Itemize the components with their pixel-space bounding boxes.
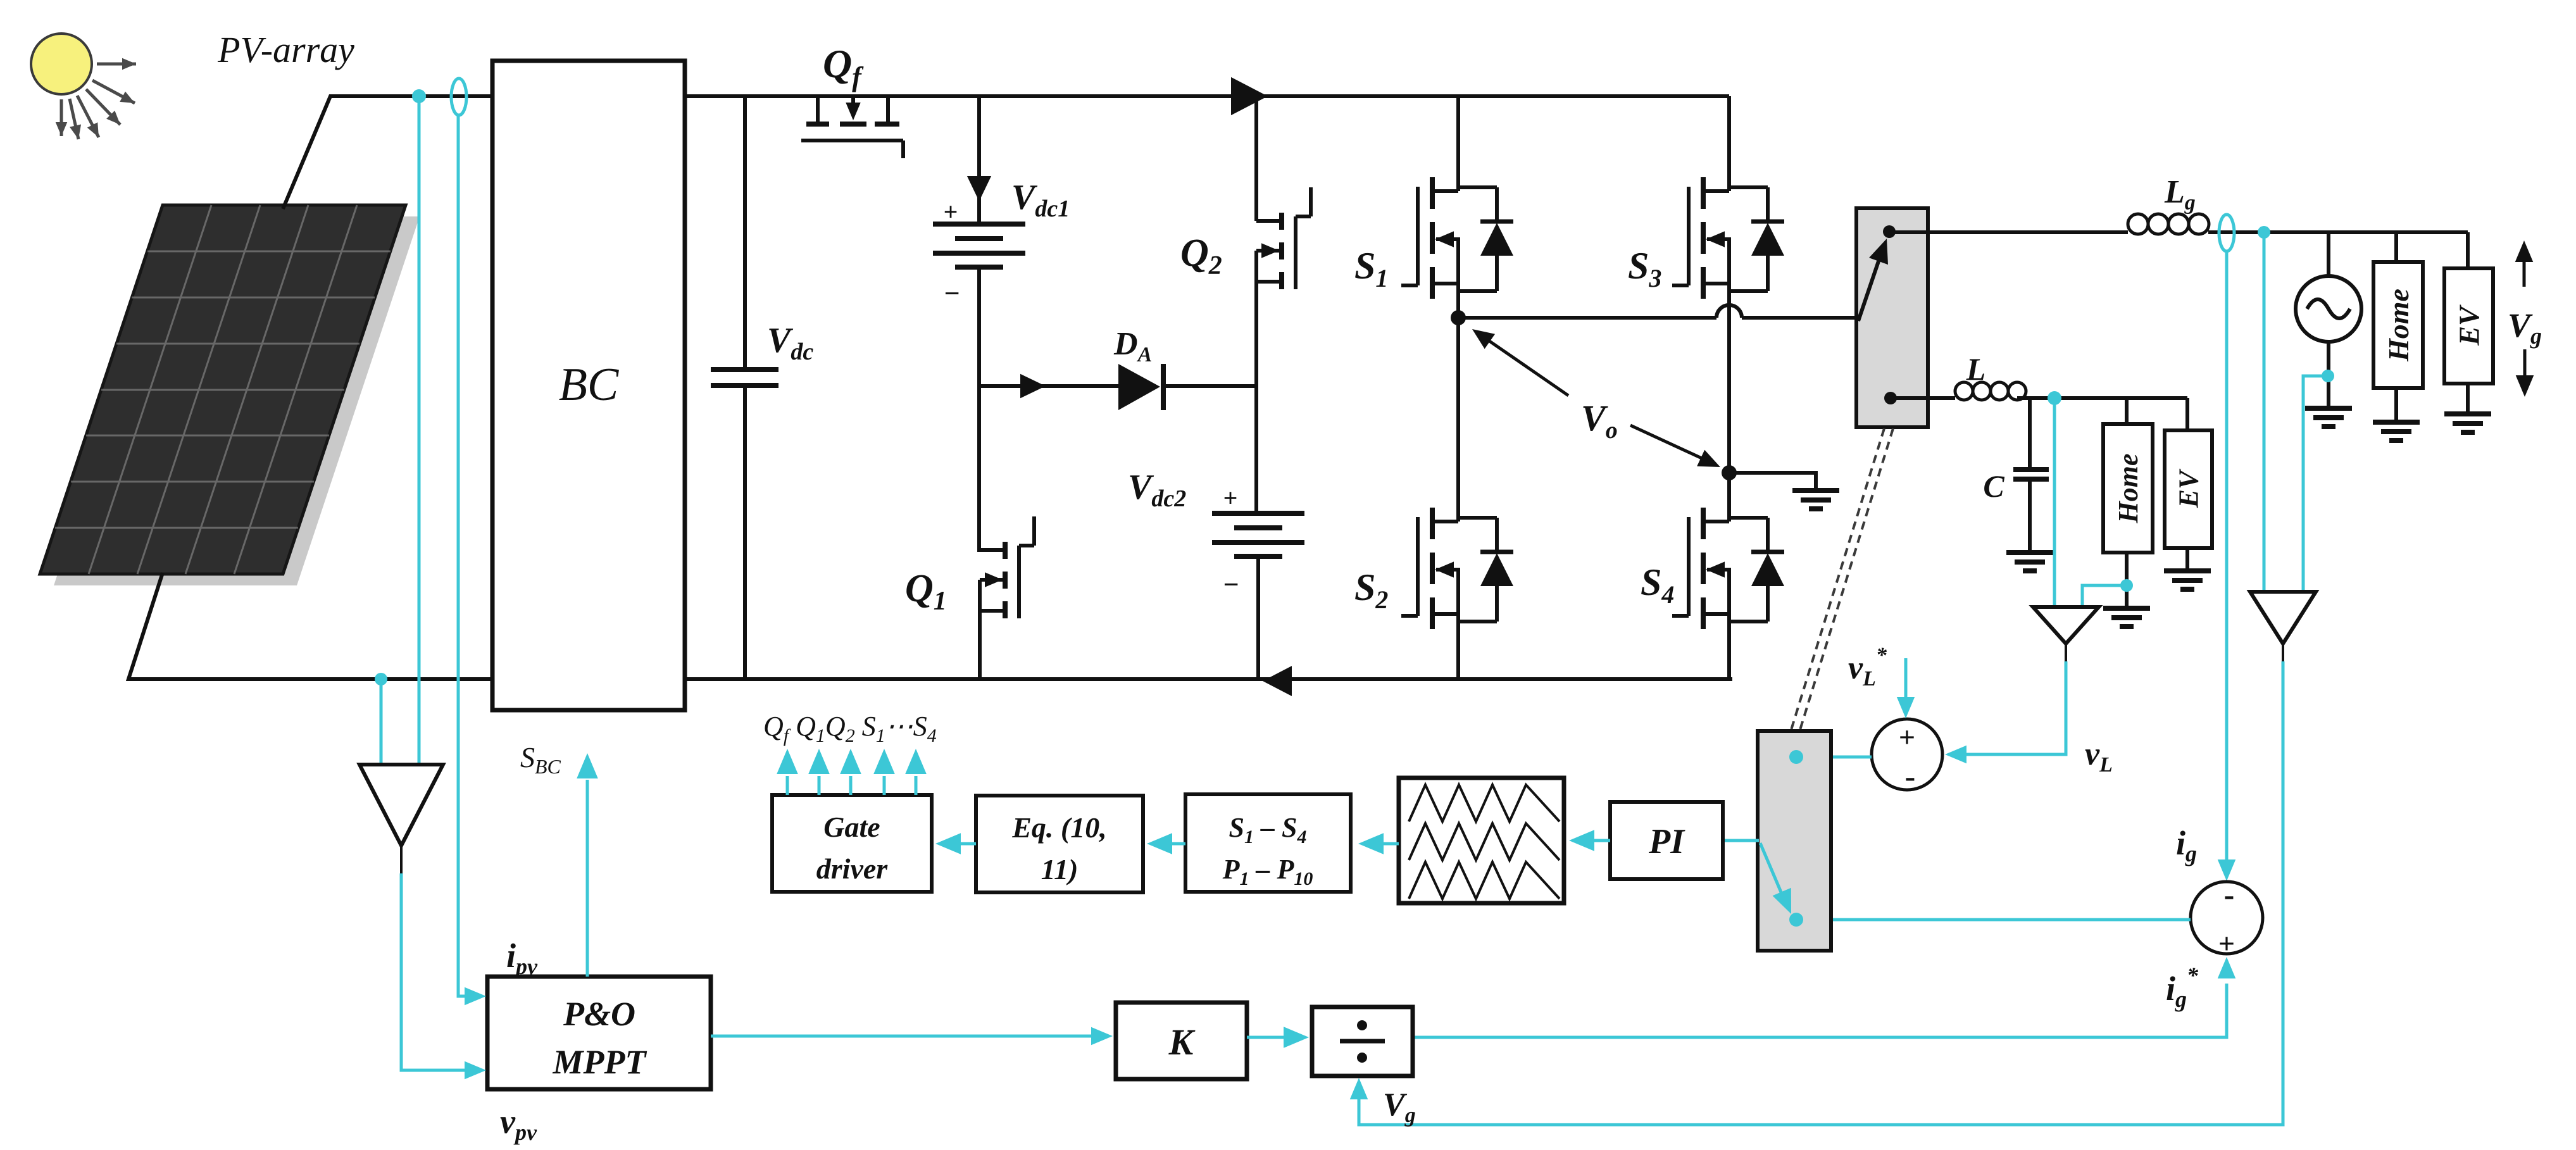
svg-text:C: C bbox=[1983, 468, 2004, 504]
svg-text:11): 11) bbox=[1041, 853, 1079, 885]
block S1-S4 P1-P10 bbox=[1185, 794, 1351, 892]
wire node B to ground bbox=[1729, 473, 1816, 491]
svg-text:Gate: Gate bbox=[823, 811, 880, 843]
selector input bbox=[1723, 839, 1759, 842]
wire PWM to S1S4 bbox=[1380, 842, 1399, 846]
svg-text:Eq. (10,: Eq. (10, bbox=[1011, 811, 1107, 844]
wire Q1 source bbox=[978, 611, 982, 679]
Vo arrow to node A bbox=[1479, 334, 1568, 396]
sensor vpv loop bbox=[451, 78, 466, 115]
wire S4 drain bbox=[1727, 473, 1731, 522]
transistor S4 bbox=[1701, 508, 1706, 539]
PV panel bbox=[40, 205, 406, 574]
PV panel shadow bbox=[54, 216, 420, 585]
switch link dashes bbox=[1791, 428, 1884, 730]
transistor Q1 bbox=[1003, 542, 1008, 559]
block P&O MPPT bbox=[487, 977, 711, 1089]
load Home grid bbox=[2394, 232, 2398, 262]
wire top bus bbox=[685, 94, 1729, 98]
node Home sense dot bbox=[2120, 579, 2133, 592]
wire sum1 out bbox=[1796, 756, 1872, 759]
transistor Q2 bbox=[1279, 213, 1284, 230]
svg-text:−: − bbox=[944, 278, 960, 309]
node vL dot bbox=[2048, 391, 2061, 405]
svg-text:+: + bbox=[944, 197, 958, 226]
wire vg sense a bbox=[2263, 232, 2266, 592]
inductor Lg bbox=[2128, 214, 2148, 234]
sensor ig loop bbox=[2219, 215, 2234, 251]
block Eq bbox=[976, 796, 1143, 892]
Vg arrows bbox=[2523, 248, 2526, 287]
svg-text:K: K bbox=[1168, 1022, 1196, 1063]
svg-text:EV: EV bbox=[2453, 304, 2485, 346]
summing circle ig bbox=[2191, 882, 2263, 954]
transistor Qf bbox=[806, 122, 829, 127]
block divider bbox=[1312, 1007, 1413, 1076]
wire PV+ diagonal bbox=[283, 96, 492, 209]
node ipv dot bbox=[412, 89, 426, 103]
Vo arrow to node B bbox=[1630, 425, 1713, 463]
wire igstar in bbox=[1413, 984, 2227, 1037]
converter BC box bbox=[492, 61, 685, 710]
sun rays bbox=[97, 63, 136, 66]
wire DA anode bbox=[979, 384, 1118, 388]
wire Home grid ground bbox=[2394, 388, 2398, 422]
inductor L bbox=[1955, 382, 1973, 400]
sun bbox=[31, 34, 92, 94]
wire vpv sense top bbox=[418, 96, 421, 765]
wire DA cathode bbox=[1165, 384, 1256, 388]
ground C bbox=[2006, 550, 2053, 555]
wire S1 drain bbox=[1456, 96, 1460, 191]
wire node A to switch with hop bbox=[1458, 316, 1716, 320]
wire Vg feedback bbox=[1359, 661, 2283, 1125]
svg-text:+: + bbox=[1899, 721, 1915, 753]
wire Q2 drain bbox=[1254, 96, 1258, 221]
load EV island bbox=[2185, 398, 2189, 430]
wire Vdc branch bottom bbox=[743, 385, 747, 679]
wire sum2 out bbox=[1796, 918, 2191, 922]
svg-text:S1 – S4: S1 – S4 bbox=[1229, 812, 1307, 847]
svg-text:Home: Home bbox=[2113, 454, 2144, 524]
sensor vpv stub bbox=[400, 846, 403, 890]
wire vL sense b bbox=[2082, 585, 2127, 607]
sensor vpv triangle bbox=[360, 765, 443, 846]
svg-text:EV: EV bbox=[2173, 468, 2204, 508]
wire vL out bbox=[1953, 661, 2066, 754]
selector contact bottom bbox=[1789, 913, 1803, 927]
PV panel grid bbox=[55, 205, 391, 574]
svg-text:BC: BC bbox=[559, 359, 620, 411]
switch contact top bbox=[1883, 225, 1896, 238]
wire switch to L bbox=[1891, 396, 1955, 400]
node A dot bbox=[1456, 284, 1460, 318]
wire Home island ground bbox=[2125, 553, 2129, 608]
node vg dot bbox=[2258, 226, 2270, 239]
ground node B bbox=[1792, 488, 1839, 493]
selector box bbox=[1758, 731, 1831, 951]
PWM carrier waves bbox=[1409, 785, 1560, 822]
wire vL sense a bbox=[2053, 398, 2056, 607]
svg-text:+: + bbox=[2218, 927, 2235, 959]
wire Vdc1 to DA node bbox=[977, 267, 981, 552]
transistor S1 bbox=[1430, 177, 1435, 209]
wire S3 drain bbox=[1727, 96, 1731, 191]
svg-text:PI: PI bbox=[1648, 822, 1685, 861]
svg-text:Home: Home bbox=[2382, 289, 2415, 362]
svg-text:MPPT: MPPT bbox=[553, 1043, 647, 1081]
wire bottom bus bbox=[685, 677, 1732, 681]
transistor S3 bbox=[1701, 177, 1706, 209]
svg-text:-: - bbox=[2224, 877, 2235, 912]
wire C to ground bbox=[2028, 479, 2032, 553]
node vpv- dot bbox=[375, 673, 387, 685]
wire vpv sense bottom bbox=[380, 679, 383, 765]
wire Vdc branch top bbox=[743, 96, 747, 370]
node AC neutral dot bbox=[2322, 370, 2334, 382]
wire C branch bbox=[2028, 398, 2032, 470]
summing circle vL bbox=[1872, 719, 1942, 790]
wire S2 source bbox=[1456, 614, 1460, 679]
wire EV grid ground bbox=[2466, 384, 2470, 414]
sensor vL triangle bbox=[2033, 607, 2099, 644]
ground EV grid bbox=[2444, 411, 2491, 416]
wire vpv out bbox=[401, 873, 478, 1070]
wire S1S4 to Eq bbox=[1168, 842, 1185, 846]
ground AC bbox=[2305, 406, 2352, 411]
wire PI to PWM bbox=[1591, 839, 1610, 842]
battery Vdc2 bbox=[1212, 511, 1304, 516]
PWM box bbox=[1399, 778, 1564, 903]
diode DA bbox=[1118, 364, 1160, 410]
wire S4 source bbox=[1727, 614, 1731, 679]
wire Vdc1 feed bbox=[977, 96, 981, 224]
bottom bus current arrow bbox=[1263, 666, 1292, 696]
wire K to divider bbox=[1247, 1036, 1284, 1039]
svg-text:L: L bbox=[1966, 351, 1986, 387]
block Gate driver bbox=[772, 795, 932, 892]
svg-text:-: - bbox=[1905, 758, 1916, 794]
wire S2 drain bbox=[1456, 318, 1460, 522]
wire S3 source to node B bbox=[1727, 284, 1731, 473]
wire ig sense bbox=[2225, 251, 2229, 875]
sensor vg stub bbox=[2282, 644, 2284, 672]
node B dot bbox=[1722, 465, 1737, 480]
capacitor C bbox=[2013, 467, 2049, 472]
wire PV- diagonal bbox=[128, 573, 492, 679]
wire switch to Lg bbox=[1889, 230, 2128, 234]
svg-text:PV-array: PV-array bbox=[217, 29, 354, 70]
wire vg sense b bbox=[2303, 376, 2328, 592]
divider symbol bbox=[1340, 1039, 1385, 1044]
capacitor Vdc bbox=[711, 367, 778, 372]
svg-text:P&O: P&O bbox=[563, 995, 635, 1033]
sensor vL stub bbox=[2065, 644, 2067, 672]
top bus current arrow bbox=[1231, 77, 1268, 115]
wire EV island ground bbox=[2185, 548, 2189, 571]
wire MPPT to K bbox=[711, 1035, 1105, 1038]
switch contact bottom bbox=[1884, 392, 1897, 404]
source AC grid bbox=[2327, 232, 2330, 276]
svg-text:driver: driver bbox=[816, 853, 889, 885]
transistor S2 bbox=[1430, 508, 1435, 539]
wire L to loads bbox=[2017, 396, 2187, 400]
wire SBC arrow bbox=[586, 780, 589, 977]
switch box bbox=[1856, 208, 1928, 427]
ground EV island bbox=[2164, 568, 2211, 573]
wire Eq to Gate bbox=[957, 842, 976, 846]
selector contact top bbox=[1789, 750, 1803, 764]
ground Home grid bbox=[2373, 420, 2420, 425]
wire vLstar in bbox=[1904, 658, 1908, 712]
load EV grid bbox=[2466, 232, 2470, 268]
ground Home island bbox=[2103, 606, 2150, 611]
battery Vdc1 bbox=[933, 222, 1025, 227]
sensor vg triangle bbox=[2250, 592, 2316, 644]
load Home island bbox=[2125, 398, 2129, 424]
svg-text:−: − bbox=[1223, 569, 1239, 600]
wire Lg to grid bbox=[2208, 230, 2468, 234]
wire ipv sense bbox=[458, 115, 478, 996]
selector arm bbox=[1760, 843, 1784, 898]
wire Q2 source bbox=[1254, 282, 1258, 513]
switch arm bbox=[1858, 254, 1881, 321]
svg-text:+: + bbox=[1223, 484, 1238, 512]
gate signal arrows bbox=[786, 776, 789, 795]
controller PI box bbox=[1610, 802, 1723, 879]
block K bbox=[1116, 1003, 1247, 1079]
wire AC to ground bbox=[2327, 342, 2330, 408]
wire Vdc2 minus bbox=[1256, 556, 1260, 679]
